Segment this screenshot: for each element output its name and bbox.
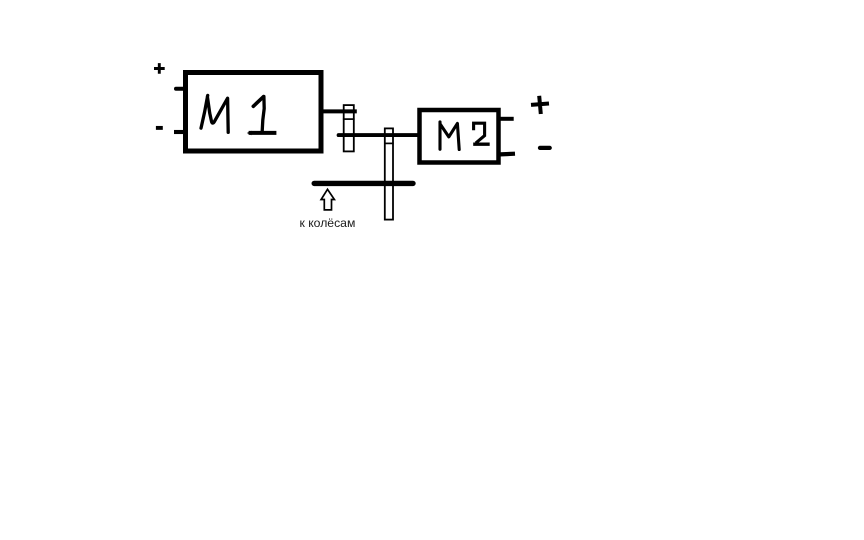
plus sign left [154,63,165,74]
label M2 digit 2 [474,123,485,143]
minus sign left [156,126,163,130]
svg-text:к колёсам: к колёсам [300,216,356,230]
wheel axle [314,181,413,186]
plus terminal lead of M2 [500,117,514,121]
arrow to wheels [321,189,334,210]
motor M1 box [186,73,322,152]
label M1 digit 1 [253,97,263,107]
gear B divider line [384,142,394,144]
gear B (tall pulley on intermediate shaft) [385,128,393,219]
label M1 letter M [201,95,228,132]
motor M2 box [420,110,499,163]
label M2 letter M [440,122,459,150]
plus sign right [531,96,549,114]
gear A (small pulley on M1 shaft) [344,105,354,151]
intermediate shaft from gear A to M2 [339,133,420,137]
minus terminal lead of M2 [500,152,515,157]
shaft from M1 to gear A [321,109,357,113]
minus terminal lead of M1 [174,130,184,134]
minus sign right [540,146,550,150]
plus terminal lead of M1 [176,87,184,91]
gear A divider line [343,118,355,120]
